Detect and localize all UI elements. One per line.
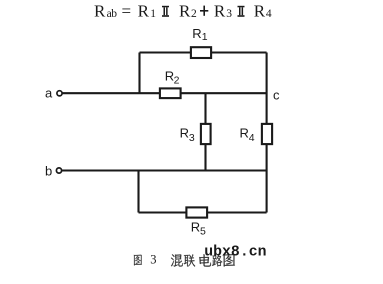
svg-text:R: R [214,2,226,21]
svg-text:R: R [192,26,201,41]
svg-text:1: 1 [202,31,208,43]
svg-text:R: R [240,125,249,140]
svg-text:ab: ab [107,8,118,20]
wire bottom-left vertical [137,171,139,213]
wire R3 branch vertical [204,93,206,170]
svg-text:1: 1 [150,8,156,20]
svg-text:5: 5 [200,226,206,238]
terminal b [56,168,61,173]
resistor R1 [191,47,211,58]
svg-text:3: 3 [189,132,195,144]
svg-text:R: R [179,2,191,21]
resistor R4 [262,124,272,144]
svg-text:c: c [273,88,280,103]
svg-text:ubx8.cn: ubx8.cn [204,244,266,260]
caption figure 3 series-parallel circuit diagram [134,253,235,267]
parallel symbol 1 [162,6,169,17]
svg-text:4: 4 [266,8,272,20]
resistor R2 [160,88,181,98]
wire b horizontal [62,169,267,171]
svg-text:=: = [122,2,132,21]
svg-text:3: 3 [150,253,156,267]
svg-text:b: b [45,164,52,179]
svg-text:R: R [94,2,106,21]
svg-text:R: R [254,2,266,21]
svg-text:3: 3 [226,8,232,20]
wire bottom horizontal [139,211,267,213]
parallel symbol 2 [238,6,245,17]
svg-text:R: R [138,2,150,21]
wire top horizontal [140,51,267,53]
wire right vertical (node c) [266,53,268,213]
svg-text:2: 2 [174,75,180,87]
resistor R3 [201,124,211,144]
svg-text:a: a [45,85,53,100]
formula Rab = R1 || R2 + R3 || R4 [94,2,272,21]
wire a horizontal [63,92,267,94]
wire top-left vertical [138,53,140,94]
svg-text:R: R [180,125,189,140]
svg-text:R: R [191,219,200,234]
svg-text:4: 4 [249,132,255,144]
resistor R5 [186,207,207,217]
terminal a [57,91,62,96]
svg-text:2: 2 [191,8,197,20]
